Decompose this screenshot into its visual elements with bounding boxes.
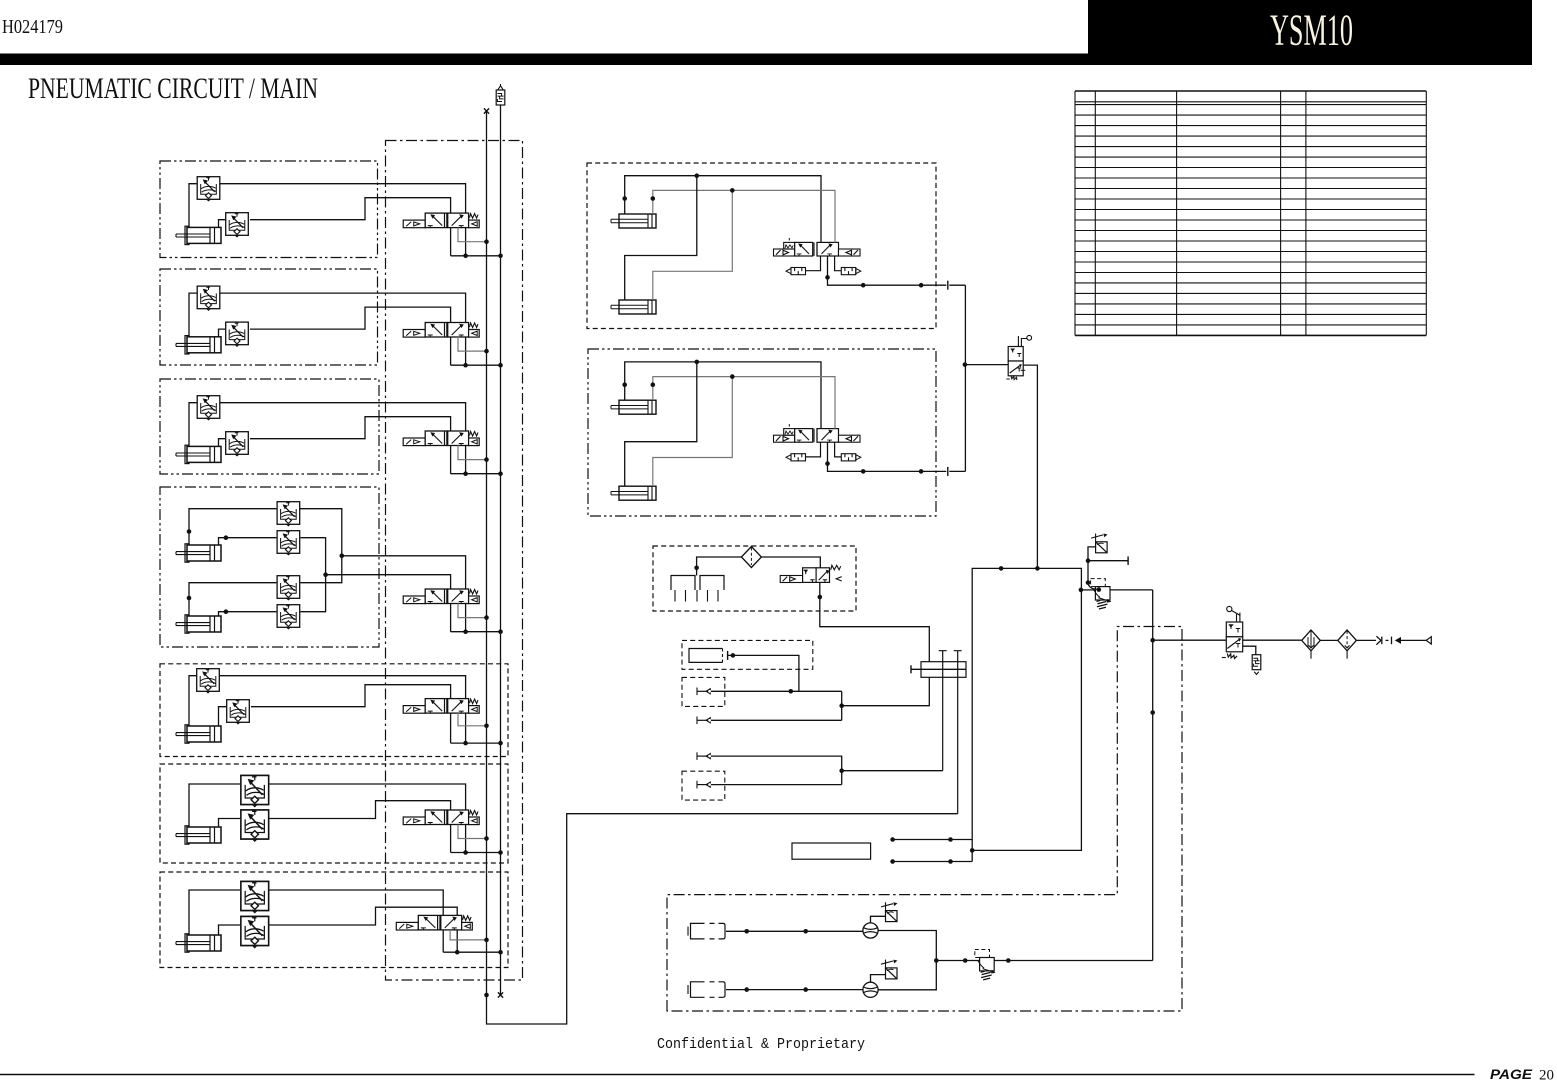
svg-text:H024179: H024179 — [2, 16, 63, 38]
flow control F4d — [277, 605, 300, 629]
junction dots valve V6 — [463, 850, 468, 855]
wire cylinder C6 cap port to F6a — [189, 784, 240, 827]
black title box — [1088, 0, 1532, 65]
wire sensor S1 out — [727, 651, 729, 660]
svg-text:PNEUMATIC CIRCUIT / MAIN: PNEUMATIC CIRCUIT / MAIN — [28, 72, 318, 105]
wire valve VA supply out — [828, 256, 947, 285]
zone border block A (twin cylinder group A) — [587, 163, 936, 329]
wire valve V32h outlet down to vacuum manifold — [820, 582, 930, 705]
vacuum pad bank — [671, 576, 724, 591]
wire E2 to CT3 — [871, 975, 886, 983]
shutoff valve V32 (3/2 vertical) — [1006, 347, 1025, 381]
check valve with throttle CT1 — [1091, 534, 1108, 553]
wire arrow A4 run — [711, 756, 842, 785]
vacuum port arrow A3 — [697, 717, 711, 725]
wire valve V2 port lines to bus — [451, 364, 501, 366]
flow control F7b — [241, 916, 269, 947]
wire valve V1 exhaust (grey) — [458, 228, 487, 242]
wire pad bank to filter diamond — [697, 557, 742, 576]
wire arrow A5 run — [711, 784, 842, 786]
wire A1 cap port to valve — [625, 176, 821, 243]
wire arrow junction down — [841, 691, 843, 720]
wire F4b/F4d junction to valve V4 — [300, 538, 450, 632]
flow control F7a — [241, 881, 269, 912]
zone border block 4 (twin cylinder station) — [160, 487, 379, 647]
wire main supply riser — [1152, 590, 1154, 961]
check/throttle CT2 — [881, 902, 898, 921]
bus line A (pilot exhaust) — [486, 111, 488, 995]
zone border block 5 (cylinder station 5) — [160, 664, 508, 757]
wire valve V7 exhaust (grey) — [450, 930, 486, 940]
wire manifold line 2 (capped) — [939, 651, 947, 771]
wire R1 outlet — [1110, 589, 1153, 591]
cylinder B2 — [611, 486, 656, 500]
zone border sensor box 3 — [682, 771, 725, 800]
wire manifold line 3 (capped) — [954, 651, 962, 814]
wire cylinder C7 cap port to F7a — [189, 890, 240, 935]
flow control F5a — [197, 669, 220, 693]
bus line B (supply) — [500, 105, 502, 995]
wire cylinder C5 cap port to F5a — [189, 676, 196, 726]
wire F4a/F4c junction to valve V4 — [300, 509, 466, 632]
junction dots valve V1 — [463, 254, 468, 259]
air supply silencer at top of manifold — [496, 90, 505, 105]
valve VA (5/3 double pilot valve) — [774, 238, 861, 257]
svg-text:20: 20 — [1539, 1068, 1554, 1080]
wire valve V7 port lines to bus — [443, 951, 500, 953]
regulator R2 — [975, 950, 996, 980]
check/throttle CT3 — [881, 960, 898, 979]
wire valve V6 exhaust (grey) — [458, 825, 487, 839]
wire valve V4 port lines to bus — [451, 631, 501, 633]
wire F1b to valve V1 — [250, 198, 451, 256]
shutoff valve top port circle — [1018, 336, 1026, 347]
filter diamond FD0 — [741, 547, 761, 568]
wire E2 outlet — [878, 961, 936, 990]
wire F7a to valve V7 — [270, 890, 444, 952]
quick coupling plug — [1376, 636, 1381, 645]
flow control F2a — [197, 286, 220, 310]
wire cylinder C1 cap port to F1a — [189, 184, 197, 228]
valve VB (5/3 double pilot valve) — [774, 424, 861, 443]
cylinder C7 — [176, 934, 221, 952]
cylinder B1 — [611, 400, 656, 414]
junction dots valve V4 — [463, 629, 468, 634]
wire to air source — [1401, 639, 1426, 641]
black header rule bar — [0, 54, 1532, 66]
flow control F1a — [197, 177, 220, 201]
wire valve V5 exhaust (grey) — [458, 713, 487, 726]
wire FL1 to FL2 — [1320, 639, 1338, 641]
wire R2 outlet to riser — [994, 960, 1152, 962]
quick coupling socket — [1391, 637, 1393, 645]
wire valve V5 port lines to bus — [451, 742, 501, 744]
zone border block 3 (cylinder station 3) — [160, 379, 379, 474]
flow control F3b — [226, 432, 249, 456]
filter FL2 (mist separator) — [1338, 630, 1357, 659]
cylinder C4b — [176, 615, 221, 633]
wire supply riser right of block A/B — [964, 285, 966, 471]
flow control F4c — [277, 576, 300, 600]
cylinder C6 — [176, 826, 221, 844]
parts table grid — [1075, 91, 1426, 335]
wire B1 rod port to valve — [653, 377, 835, 429]
wire cylinder C2 cap port to F2a — [189, 293, 197, 337]
wire cylinder C5 rod port to F5b — [219, 707, 227, 726]
muffler B right — [841, 454, 861, 461]
footer rule — [0, 1074, 1475, 1076]
wire CT1 junction curve into R1 — [1088, 583, 1098, 590]
wire cylinder C4b ports — [189, 583, 276, 616]
wire FL2 to coupling — [1356, 639, 1376, 641]
muffler A right — [841, 268, 861, 275]
svg-text:PAGE: PAGE — [1490, 1067, 1533, 1080]
wire valve VA exhaust to mufflers — [806, 256, 842, 271]
valve V5 (5/2 solenoid valve) — [403, 699, 479, 714]
valve V1 (5/2 solenoid valve) — [403, 213, 479, 228]
wire to filter FL1 — [1243, 639, 1302, 641]
wire cylinder C6 rod port to F6b — [219, 819, 241, 828]
muffler M3 — [1252, 655, 1261, 670]
wire bulkhead mid line — [910, 665, 912, 673]
wire F1a to valve V1 — [220, 184, 466, 256]
valve V6 (5/2 solenoid valve) — [403, 810, 479, 825]
svg-text:YSM10: YSM10 — [1270, 6, 1353, 55]
zone border block 1 (cylinder station 1) — [160, 161, 378, 258]
flow control F6a — [241, 775, 269, 806]
wire supply loop to R1 — [1081, 589, 1095, 591]
junction dots valve V2 — [463, 363, 468, 368]
vacuum pad VP2 — [688, 982, 725, 998]
zone border filter unit block — [653, 546, 856, 611]
muffler B left — [786, 454, 806, 461]
wire F6a to valve V6 — [270, 784, 466, 853]
flow control F6b — [241, 810, 269, 841]
wire riser to shutoff valve — [965, 364, 1008, 366]
wire F5b to valve V5 — [251, 685, 451, 743]
svg-text:Confidential & Proprietary: Confidential & Proprietary — [657, 1037, 865, 1053]
wire cylinder C1 rod port to F1b — [219, 220, 226, 228]
wire arrow A3 run — [711, 719, 842, 721]
wire F5a to valve V5 — [220, 676, 466, 743]
cylinder C4a — [176, 544, 221, 562]
wire F2a to valve V2 — [220, 293, 466, 365]
wire cylinder C3 rod port to F3b — [219, 439, 226, 447]
wire VP2 to venturi E2 — [726, 989, 863, 991]
label box — [792, 843, 871, 859]
junction supply riser — [963, 362, 968, 367]
wire vacuum supply to regulator R2 — [936, 960, 979, 962]
wire cylinder C4a ports — [189, 509, 276, 545]
wire cylinder C3 cap port to F3a — [189, 403, 197, 447]
wire bus A to vacuum manifold (long run) — [487, 814, 958, 1024]
wire F3b to valve V3 — [250, 417, 451, 474]
junction dots on supply loop — [999, 566, 1004, 571]
cylinder C2 — [176, 336, 221, 354]
flow control F4a — [277, 502, 300, 526]
cylinder C5 — [176, 725, 221, 743]
vacuum port arrow A2 — [697, 688, 711, 696]
flow control F1b — [226, 213, 249, 237]
flow control F4b — [277, 531, 300, 555]
zone border block 6 (cylinder station 6) — [160, 764, 508, 863]
cylinder A2 — [611, 300, 656, 314]
bulkhead connector box — [921, 662, 966, 678]
wire valve VB exhaust to mufflers — [806, 442, 842, 457]
wire F2b to valve V2 — [250, 307, 451, 365]
wire A2 cap port join — [625, 176, 697, 300]
sensor S1 body — [689, 649, 723, 663]
wire pressure switch pair — [893, 840, 973, 862]
valve V32h (3/2 pilot valve in filter block) — [780, 565, 842, 582]
line break tick B — [947, 467, 949, 476]
wire cylinder C2 rod port to F2b — [219, 329, 226, 337]
gauge port line — [1088, 560, 1128, 562]
vacuum port arrow A4 — [697, 752, 711, 760]
wire valve VB supply out — [828, 442, 947, 471]
wire B2 rod port join — [653, 377, 733, 487]
wire F6b to valve V6 — [270, 801, 451, 853]
wire supply loop ring — [972, 568, 1081, 861]
wire valve V6 port lines to bus — [451, 852, 501, 854]
wire coupling gap — [1386, 639, 1389, 641]
wire valve V2 exhaust (grey) — [458, 337, 487, 351]
zone border sensor box 2 — [682, 677, 725, 706]
flow control F5b — [227, 700, 250, 724]
valve V4 (5/2 solenoid valve) — [403, 589, 479, 604]
zone border sensor box 1 — [682, 640, 813, 669]
valve V3 (5/2 solenoid valve) — [403, 431, 479, 446]
valve V2 (5/2 solenoid valve) — [403, 323, 479, 338]
wire main supply line — [1153, 639, 1227, 641]
junction dots valve V7 — [455, 950, 460, 955]
zone border block B (twin cylinder group B) — [588, 349, 936, 516]
venturi ejector E1 — [863, 923, 878, 938]
wire E1 outlet — [878, 931, 936, 961]
wire F7b to valve V7 — [270, 907, 458, 952]
line break tick A — [947, 281, 949, 290]
filter FL1 — [1302, 630, 1321, 659]
cylinder A1 — [611, 214, 656, 228]
wire A1 rod port to valve — [653, 190, 835, 242]
wire valve V3 exhaust (grey) — [458, 446, 487, 460]
junction dots valve V3 — [463, 471, 468, 476]
wire valve V3 port lines to bus — [451, 473, 501, 475]
flow control F2b — [226, 322, 249, 346]
zone border bottom vacuum unit (L-shaped) — [667, 627, 1182, 1012]
wire filter diamond to valve V32h — [761, 557, 820, 568]
wire hand valve to muffler — [1243, 646, 1256, 655]
cylinder C1 — [176, 226, 221, 244]
junction dots valve V5 — [463, 741, 468, 746]
hand valve HV1 — [1222, 606, 1243, 658]
wire A2 rod port join — [653, 190, 733, 300]
junction dots block B — [695, 360, 700, 365]
wire shutoff valve outlet down — [1023, 365, 1037, 568]
junction bus A bottom — [484, 993, 489, 998]
cylinder C3 — [176, 445, 221, 463]
regulator R1 — [1091, 579, 1112, 609]
zone border block 2 (cylinder station 2) — [160, 269, 378, 365]
wire cylinder C7 rod port to F7b — [219, 925, 241, 935]
muffler A left — [786, 268, 806, 275]
vacuum port arrow A5 — [697, 781, 711, 789]
wire valve V1 port lines to bus — [451, 255, 501, 257]
flow control F3a — [197, 396, 220, 420]
wire E1 to CT2 — [871, 916, 886, 923]
wire B2 cap port join — [625, 362, 697, 486]
wire arrow A2 run — [711, 690, 842, 692]
wire B1 cap port to valve — [625, 362, 821, 429]
wire F3a to valve V3 — [220, 403, 466, 474]
air source symbol — [1426, 637, 1431, 644]
zone border block 7 (cylinder station 7) — [160, 872, 508, 968]
wire CT1 to junction — [1088, 547, 1096, 583]
wire VP1 to venturi E1 — [726, 930, 863, 932]
vacuum pad VP1 — [688, 923, 725, 939]
zone border valve manifold column — [386, 141, 523, 981]
wire arrow A4 to manifold — [842, 770, 943, 772]
junction dots block A — [695, 173, 700, 178]
valve V7 (5/2 solenoid valve) — [396, 915, 472, 930]
venturi ejector E2 — [863, 982, 878, 997]
wire valve V4 exhaust (grey) — [458, 604, 487, 618]
